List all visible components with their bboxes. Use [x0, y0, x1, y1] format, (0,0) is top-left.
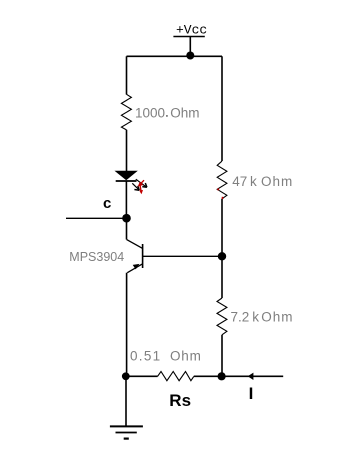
svg-text:I: I: [249, 384, 254, 403]
svg-text:Ohm: Ohm: [170, 348, 202, 363]
svg-text:Rs: Rs: [169, 391, 191, 410]
svg-text:1000: 1000: [135, 105, 165, 120]
svg-text:k: k: [252, 309, 259, 324]
svg-text:Ohm: Ohm: [261, 174, 293, 189]
svg-text:MPS3904: MPS3904: [69, 250, 124, 264]
svg-text:0.51: 0.51: [130, 348, 161, 363]
svg-text:Ohm: Ohm: [261, 309, 293, 324]
svg-text:Ohm: Ohm: [170, 105, 199, 120]
svg-text:k: k: [250, 174, 257, 189]
svg-text:7.2: 7.2: [231, 309, 250, 324]
svg-text:c: c: [103, 195, 111, 212]
svg-text:+Vcc: +Vcc: [176, 23, 207, 38]
svg-text:47: 47: [232, 174, 247, 189]
